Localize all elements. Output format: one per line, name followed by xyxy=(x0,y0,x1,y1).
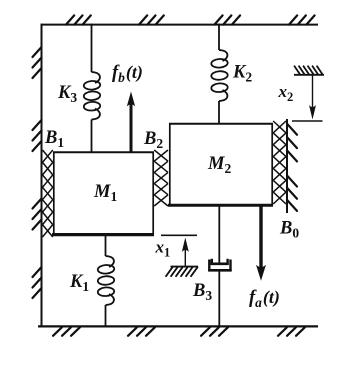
ground hatching bottom wall xyxy=(53,327,62,336)
node x2 reference line xyxy=(292,120,323,122)
damper B2 crosshatch xyxy=(154,150,168,161)
wire left wall xyxy=(41,24,43,328)
ground x1 xyxy=(171,266,199,268)
force arrow fa(t) xyxy=(259,205,262,272)
ground hatching top wall xyxy=(66,15,74,24)
ground x2 xyxy=(294,74,324,76)
arrow x2 xyxy=(312,75,314,111)
ground hatching right wall xyxy=(287,124,297,135)
wire top wall xyxy=(41,24,318,26)
damper B3 xyxy=(218,206,220,263)
node x1 reference line xyxy=(161,234,197,236)
svg-text:fb(t): fb(t) xyxy=(112,62,143,85)
mass M2 xyxy=(169,123,273,206)
spring K3 xyxy=(91,24,93,72)
spring K2 xyxy=(218,24,220,50)
force arrow fb(t) xyxy=(130,100,133,152)
ground hatching left wall xyxy=(33,47,42,57)
spring K1 xyxy=(105,235,107,257)
damper B1 crosshatch xyxy=(43,150,53,162)
damper B0 crosshatch xyxy=(273,121,286,133)
wire right wall xyxy=(286,119,288,213)
arrow x1 xyxy=(184,246,186,266)
mass M1 xyxy=(53,152,154,235)
svg-text:fa(t): fa(t) xyxy=(249,287,280,310)
wire bottom wall xyxy=(38,325,318,327)
